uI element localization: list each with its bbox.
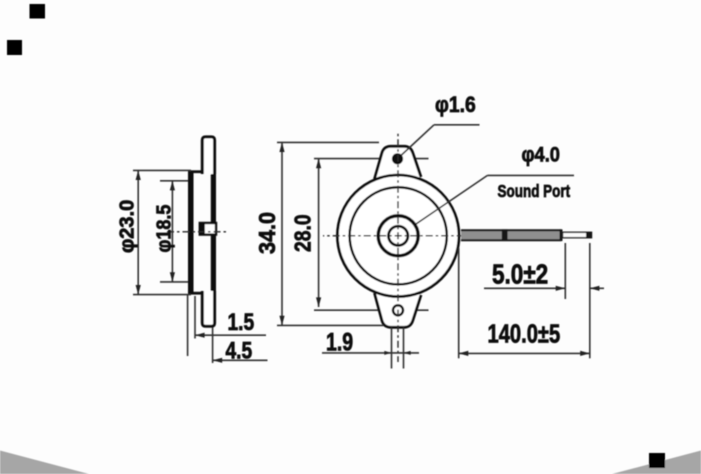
body outer circle — [337, 175, 459, 297]
side view back bar — [211, 171, 216, 295]
34.0 dimension line — [281, 142, 283, 325]
1.9 extension verticals — [391, 328, 393, 369]
center boss ring — [378, 216, 418, 256]
phi23 top extension line — [133, 169, 191, 171]
svg-text:4.5: 4.5 — [226, 336, 253, 364]
front vertical centerline upper — [397, 133, 399, 236]
svg-text:140.0±5: 140.0±5 — [488, 319, 561, 348]
28.0 bottom arrow — [316, 297, 321, 307]
side view horizontal centerline — [167, 231, 228, 233]
28.0 top arrow — [316, 159, 321, 169]
phi23 dimension line — [137, 170, 139, 294]
bottom ear hole centerline — [314, 309, 429, 311]
1.5 dimension line — [195, 334, 266, 336]
1.5 arrow — [195, 333, 205, 338]
5.0 right stub — [590, 287, 604, 289]
bare wire — [563, 232, 592, 237]
phi1.6 leader — [402, 125, 435, 155]
top ear hole dot phi1.6 — [392, 153, 403, 164]
phi23 top arrow — [136, 170, 141, 180]
phi23 bottom arrow — [136, 285, 141, 295]
1.9 right arrow — [404, 351, 411, 355]
140 dimension line — [459, 352, 590, 354]
side view bottom cap — [188, 292, 205, 295]
insulation end — [560, 229, 563, 241]
svg-text:1.9: 1.9 — [326, 328, 353, 356]
svg-text:28.0: 28.0 — [291, 214, 316, 252]
watermark square top-left — [30, 4, 46, 19]
svg-text:1.5: 1.5 — [228, 308, 255, 336]
bottom mounting ear — [375, 293, 422, 327]
1.5 / 4.5 extension verticals — [187, 295, 189, 356]
front horizontal centerline right — [398, 235, 462, 237]
phi18.5 top arrow — [170, 181, 175, 191]
34.0 top extension line — [277, 141, 379, 143]
5.0 right arrow — [590, 286, 600, 291]
lead wire insulated part — [461, 231, 562, 240]
watermark square left — [7, 40, 22, 55]
phi1.6 underline — [434, 124, 480, 126]
phi18.5 dimension line — [171, 181, 173, 282]
sound hole ring phi4 — [389, 226, 408, 245]
5.0 extension verticals — [564, 243, 566, 299]
phi18.5 bottom extension line — [160, 281, 188, 283]
phi23 bottom extension line — [133, 294, 191, 296]
svg-text:34.0: 34.0 — [254, 212, 280, 254]
phi18.5 top extension line — [160, 180, 188, 182]
svg-text:5.0±2: 5.0±2 — [492, 259, 548, 290]
1.9 dimension line — [322, 352, 419, 354]
side view mid box dark left part — [200, 223, 205, 235]
top ear hole centerline — [314, 158, 429, 160]
140 left extension vertical — [458, 248, 460, 358]
front horizontal centerline left — [323, 235, 398, 237]
svg-text:Sound Port: Sound Port — [498, 182, 571, 201]
140 right arrow — [580, 351, 590, 356]
side view front flange bar — [188, 171, 194, 295]
watermark wedge bottom-left — [0, 451, 89, 474]
bottom ear hole — [393, 305, 403, 315]
bare wire tip — [586, 232, 592, 238]
top mounting ear — [375, 146, 422, 179]
phi4.0 underline — [488, 174, 575, 176]
phi18.5 bottom arrow — [170, 272, 175, 282]
wire crimp joint — [502, 229, 508, 241]
1.9 left arrow — [384, 351, 391, 355]
phi4.0 leader — [416, 175, 488, 224]
side view top mounting tab — [202, 137, 214, 174]
side view bottom mounting tab — [202, 291, 214, 326]
34.0 bottom arrow — [279, 316, 284, 326]
side view mid lead-exit box — [200, 223, 216, 235]
body rim inner circle — [350, 187, 447, 284]
34.0 bottom extension line — [277, 324, 384, 326]
svg-text:φ1.6: φ1.6 — [435, 93, 476, 117]
watermark square bottom-right — [649, 453, 665, 468]
4.5 dimension line — [213, 359, 268, 361]
side view top cap — [188, 170, 205, 173]
5.0 dimension line left part — [484, 287, 565, 289]
34.0 top arrow — [279, 142, 284, 152]
4.5 arrow — [213, 358, 223, 363]
5.0 left arrow — [556, 286, 566, 291]
140 left arrow — [459, 351, 469, 356]
front vertical centerline lower — [397, 236, 399, 362]
watermark wedge bottom-right — [612, 451, 701, 474]
28.0 dimension line — [318, 159, 320, 307]
svg-text:φ4.0: φ4.0 — [522, 143, 561, 166]
svg-text:φ23.0: φ23.0 — [117, 200, 139, 253]
svg-text:φ18.5: φ18.5 — [154, 204, 176, 252]
